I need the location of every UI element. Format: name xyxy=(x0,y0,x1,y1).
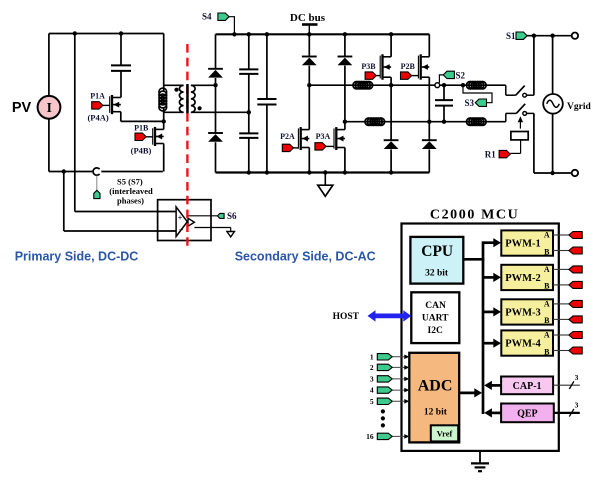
svg-text:CAN: CAN xyxy=(425,301,446,311)
svg-text:I2C: I2C xyxy=(428,326,443,336)
svg-text:B: B xyxy=(544,282,550,291)
svg-text:2: 2 xyxy=(370,363,374,372)
svg-text:B: B xyxy=(544,247,550,256)
svg-text:QEP: QEP xyxy=(517,409,538,420)
svg-text:Vgrid: Vgrid xyxy=(567,102,591,112)
svg-text:PWM-1: PWM-1 xyxy=(505,239,541,250)
svg-text:32 bit: 32 bit xyxy=(425,269,449,279)
svg-text:12 bit: 12 bit xyxy=(424,407,448,417)
svg-text:I: I xyxy=(47,100,52,115)
svg-text:PWM-3: PWM-3 xyxy=(505,308,541,319)
svg-text:HOST: HOST xyxy=(333,312,360,322)
svg-text:PV: PV xyxy=(12,100,32,116)
svg-text:S6: S6 xyxy=(227,211,237,221)
svg-text:Primary Side, DC-DC: Primary Side, DC-DC xyxy=(15,250,139,264)
svg-text:4: 4 xyxy=(370,386,374,395)
svg-text:C2000 MCU: C2000 MCU xyxy=(430,208,519,223)
svg-text:3: 3 xyxy=(575,401,579,410)
svg-text:−: − xyxy=(179,225,184,234)
svg-text:16: 16 xyxy=(366,432,374,441)
svg-text:CPU: CPU xyxy=(421,243,453,260)
svg-text:UART: UART xyxy=(422,314,449,324)
svg-text:Vref: Vref xyxy=(437,429,453,439)
svg-text:S4: S4 xyxy=(202,12,212,22)
svg-text:P3A: P3A xyxy=(316,132,331,141)
svg-text:Secondary Side, DC-AC: Secondary Side, DC-AC xyxy=(235,250,376,264)
svg-text:R1: R1 xyxy=(485,149,496,159)
svg-text:A: A xyxy=(544,331,550,340)
svg-text:PWM-2: PWM-2 xyxy=(505,273,541,284)
svg-text:B: B xyxy=(544,347,550,356)
svg-text:P1A: P1A xyxy=(90,92,105,101)
svg-text:PWM-4: PWM-4 xyxy=(505,339,541,350)
svg-text:P2B: P2B xyxy=(401,62,416,71)
svg-text:phases): phases) xyxy=(117,195,144,205)
svg-text:(P4A): (P4A) xyxy=(87,112,108,122)
svg-text:+: + xyxy=(178,214,183,223)
svg-text:(P4B): (P4B) xyxy=(131,146,152,156)
svg-text:P1B: P1B xyxy=(134,123,149,132)
svg-text:S2: S2 xyxy=(456,70,466,80)
svg-text:S3: S3 xyxy=(464,98,474,108)
svg-text:S5 (S7): S5 (S7) xyxy=(117,176,143,186)
svg-text:5: 5 xyxy=(370,397,374,406)
svg-text:P3B: P3B xyxy=(361,62,376,71)
svg-text:B: B xyxy=(544,316,550,325)
svg-text:CAP-1: CAP-1 xyxy=(513,381,542,392)
svg-text:DC bus: DC bus xyxy=(290,12,326,24)
svg-text:1: 1 xyxy=(370,352,374,361)
svg-text:P2A: P2A xyxy=(280,132,295,141)
svg-text:3: 3 xyxy=(370,375,374,384)
svg-text:ADC: ADC xyxy=(418,377,453,394)
svg-text:A: A xyxy=(544,300,550,309)
svg-text:A: A xyxy=(544,231,550,240)
svg-text:3: 3 xyxy=(575,373,579,382)
svg-text:A: A xyxy=(544,265,550,274)
svg-text:S1: S1 xyxy=(506,31,516,41)
